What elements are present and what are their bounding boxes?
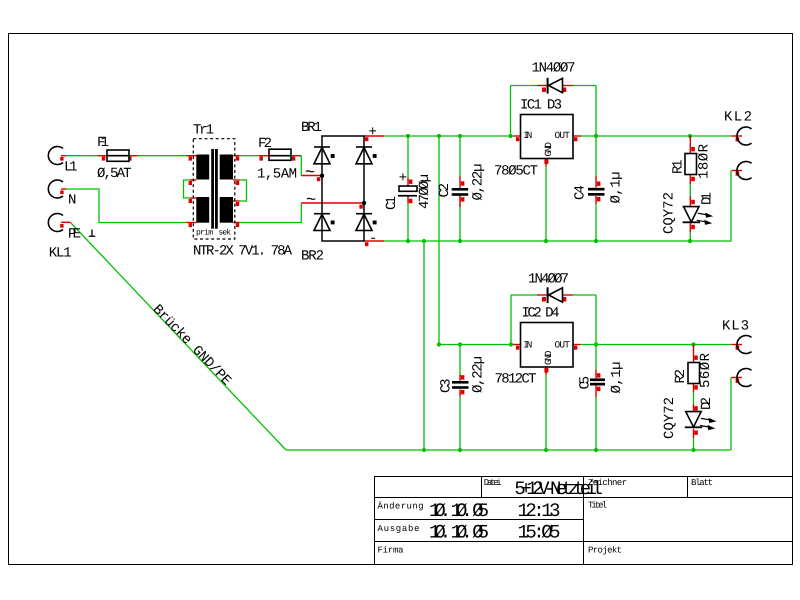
svg-text:D1: D1 xyxy=(700,192,716,205)
svg-text:N: N xyxy=(68,193,76,209)
svg-text:1,5AM: 1,5AM xyxy=(257,167,297,183)
svg-text:~: ~ xyxy=(306,192,316,211)
svg-text:R2: R2 xyxy=(673,369,689,384)
svg-text:Firma: Firma xyxy=(378,546,405,556)
svg-text:Ø,22µ: Ø,22µ xyxy=(471,164,487,201)
svg-text:KL1: KL1 xyxy=(49,246,72,262)
svg-text:Tr1: Tr1 xyxy=(193,123,214,139)
svg-text:C3: C3 xyxy=(439,379,455,394)
svg-text:Zeichner: Zeichner xyxy=(588,478,627,488)
svg-text:Datei: Datei xyxy=(484,478,502,488)
svg-text:Ausgabe: Ausgabe xyxy=(378,524,420,534)
svg-text:KL2: KL2 xyxy=(724,110,752,126)
svg-text:7812CT: 7812CT xyxy=(495,371,537,387)
svg-text:C5: C5 xyxy=(578,376,594,390)
svg-text:PE: PE xyxy=(68,227,81,243)
svg-text:R1: R1 xyxy=(671,160,687,175)
svg-text:Titel: Titel xyxy=(588,501,607,511)
svg-text:-: - xyxy=(369,231,377,247)
svg-text:1Ø. 1Ø. Ø5: 1Ø. 1Ø. Ø5 xyxy=(429,500,489,522)
svg-text:KL3: KL3 xyxy=(722,318,749,334)
svg-text:47ØØµ: 47ØØµ xyxy=(417,174,433,209)
svg-text:1N4ØØ7: 1N4ØØ7 xyxy=(532,60,576,76)
svg-text:Projekt: Projekt xyxy=(588,546,622,556)
svg-text:L1: L1 xyxy=(64,160,78,176)
svg-text:IN: IN xyxy=(523,130,532,141)
svg-text:BR2: BR2 xyxy=(301,249,324,265)
svg-text:GND: GND xyxy=(543,142,554,157)
svg-text:NTR-2X 7V1. 78A: NTR-2X 7V1. 78A xyxy=(193,244,293,260)
svg-text:IC1 D3: IC1 D3 xyxy=(520,97,562,113)
svg-text:+: + xyxy=(399,171,407,187)
svg-text:1N4ØØ7: 1N4ØØ7 xyxy=(528,272,569,288)
svg-text:C4: C4 xyxy=(573,185,589,200)
svg-text:CQY72: CQY72 xyxy=(662,192,678,234)
svg-text:OUT: OUT xyxy=(555,340,571,351)
svg-text:IC2 D4: IC2 D4 xyxy=(522,305,560,321)
svg-text:F2: F2 xyxy=(258,136,272,152)
svg-text:Ø,1µ: Ø,1µ xyxy=(609,362,625,394)
svg-text:18ØR: 18ØR xyxy=(697,143,713,179)
svg-text:+: + xyxy=(369,125,377,141)
svg-text:~: ~ xyxy=(305,164,315,183)
svg-text:D2: D2 xyxy=(699,397,715,410)
svg-text:Ø,5AT: Ø,5AT xyxy=(97,166,132,182)
svg-text:Blatt: Blatt xyxy=(691,478,713,488)
svg-text:IN: IN xyxy=(523,340,532,351)
svg-text:sek: sek xyxy=(219,228,232,237)
svg-text:prim: prim xyxy=(196,228,213,237)
svg-text:GND: GND xyxy=(543,350,554,365)
svg-text:C2: C2 xyxy=(437,183,453,198)
svg-text:OUT: OUT xyxy=(555,130,571,141)
svg-text:12:13: 12:13 xyxy=(518,500,561,522)
svg-text:1Ø. 1Ø. Ø5: 1Ø. 1Ø. Ø5 xyxy=(429,521,489,543)
svg-text:CQY72: CQY72 xyxy=(662,397,678,439)
svg-text:78Ø5CT: 78Ø5CT xyxy=(494,163,538,179)
svg-text:Ø,22µ: Ø,22µ xyxy=(471,356,487,393)
svg-text:F1: F1 xyxy=(97,135,109,151)
svg-text:15:Ø5: 15:Ø5 xyxy=(518,521,561,543)
svg-text:BR1: BR1 xyxy=(301,120,322,136)
svg-text:56ØR: 56ØR xyxy=(698,352,714,388)
svg-text:Ø,1µ: Ø,1µ xyxy=(609,172,625,204)
svg-text:C1: C1 xyxy=(384,196,400,210)
svg-text:Änderung: Änderung xyxy=(378,501,424,512)
